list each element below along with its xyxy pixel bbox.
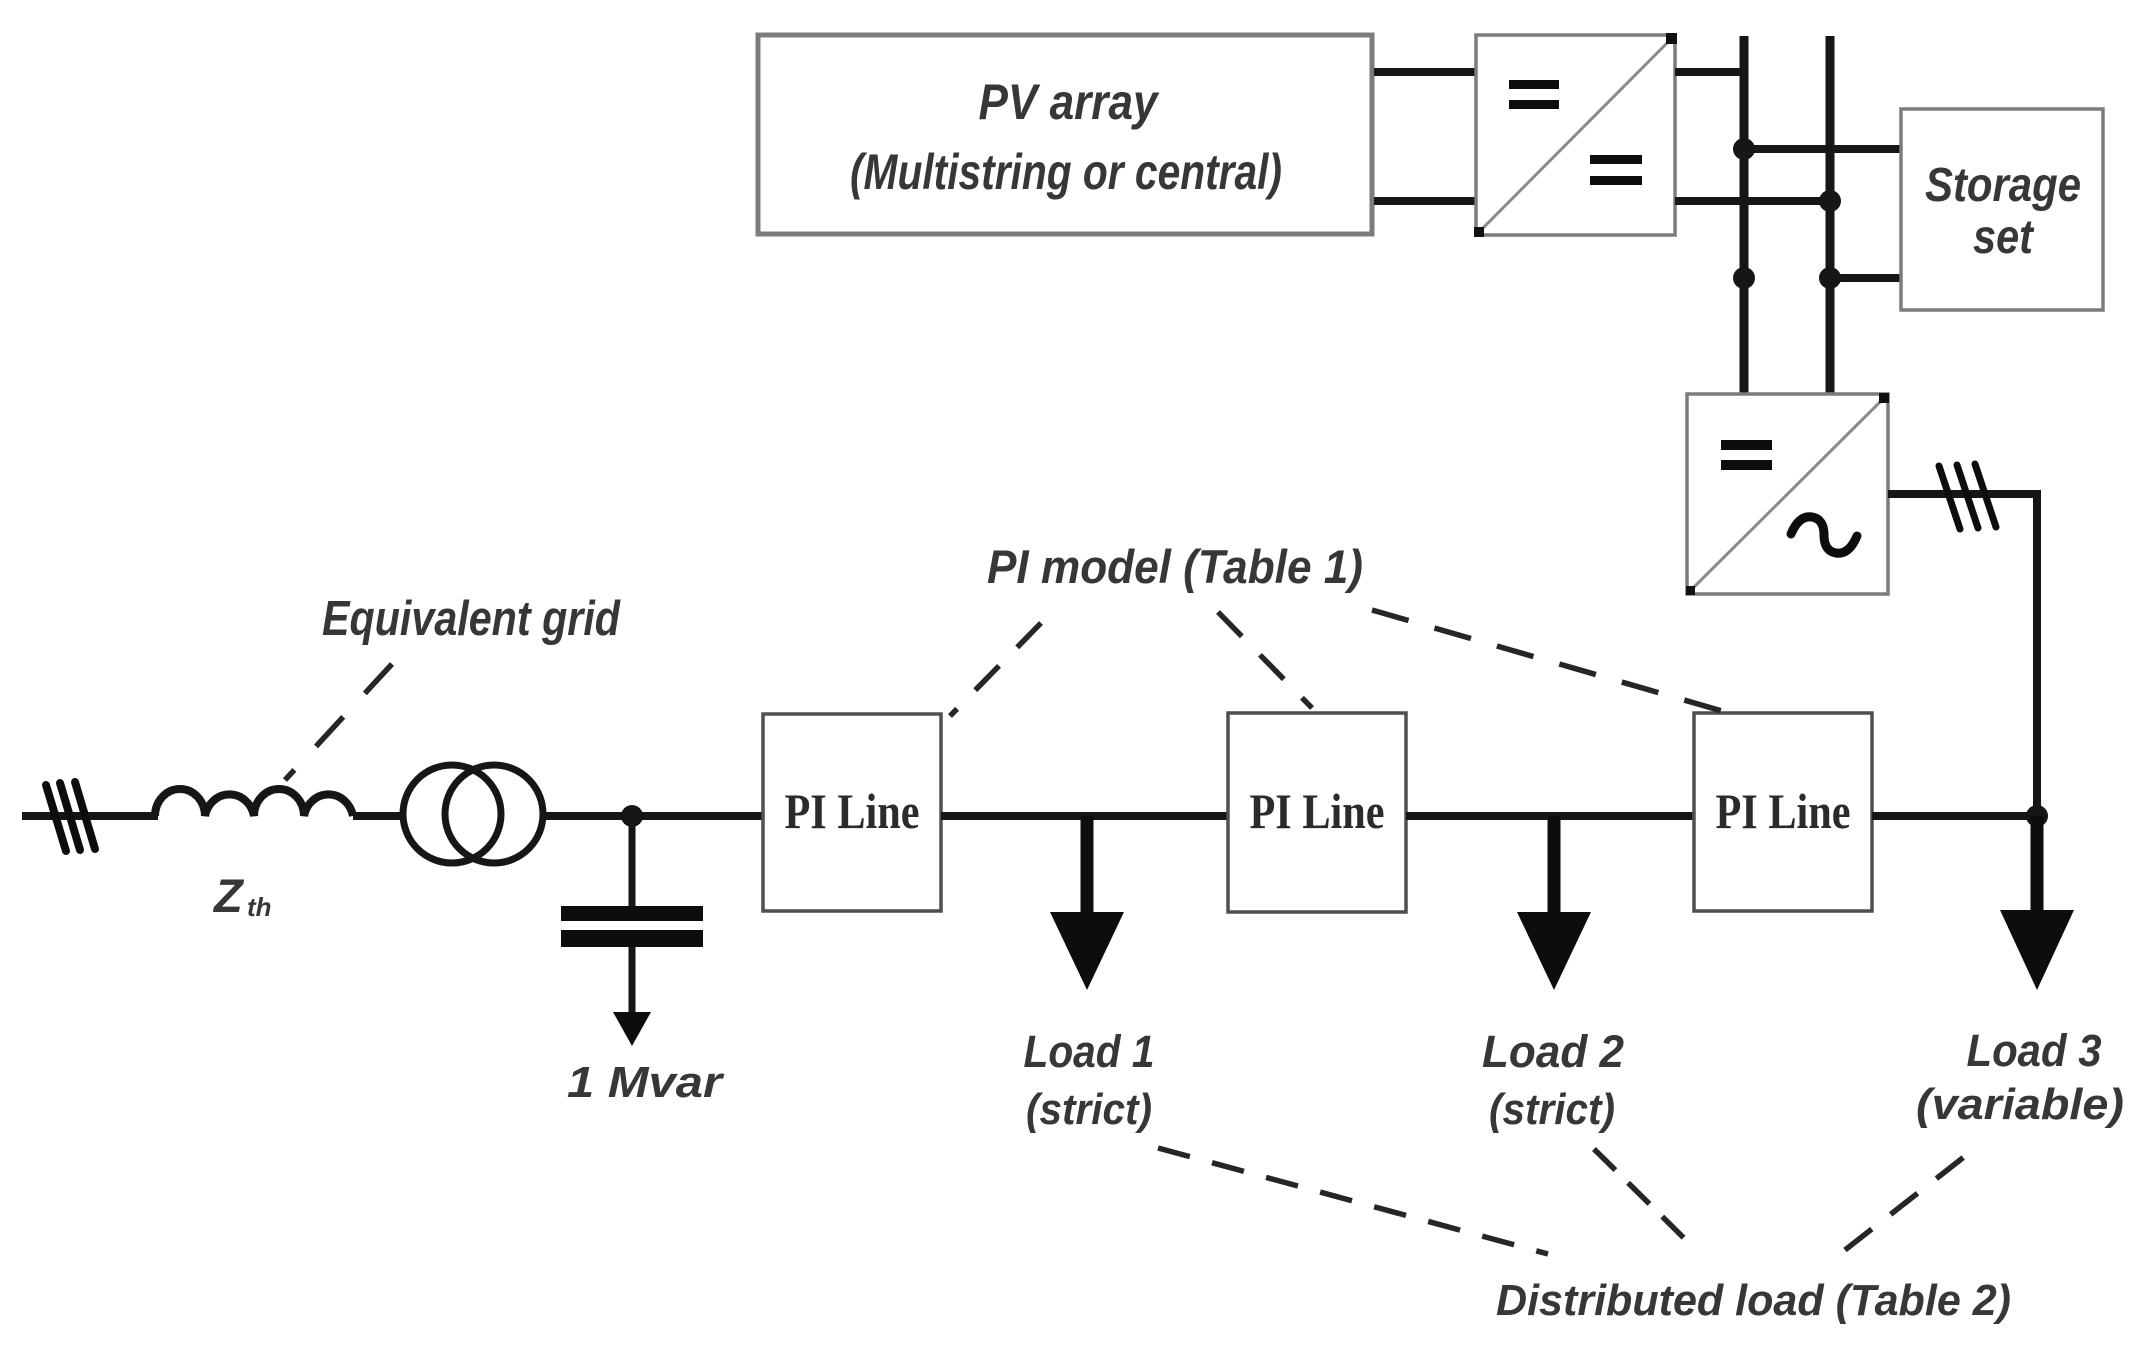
main feeder wire: box3 to load 3 node [1872,812,2041,820]
wire PV array to DC-DC converter (bottom) [1374,197,1477,205]
dashed pointer PI model to box 1 [950,623,1041,716]
dashed pointer PI model to box 3 [1372,610,1743,717]
PI Line box 1 [763,714,941,911]
three-phase ticks at grid end [46,782,95,851]
svg-text:PI model (Table 1): PI model (Table 1) [987,540,1363,593]
svg-text:PI Line: PI Line [1716,783,1851,839]
main feeder wire: box2 to box3 [1406,812,1693,820]
junction bus 2 / converter wire [1819,190,1841,212]
svg-text:(strict): (strict) [1026,1085,1152,1134]
svg-text:1 Mvar: 1 Mvar [567,1058,725,1107]
svg-text:PI Line: PI Line [1250,783,1385,839]
wire inductor to transformer [353,812,404,820]
ground arrow [613,1012,651,1046]
dashed pointer load 1 to distributed load [1158,1148,1548,1254]
dashed pointer PI model to box 2 [1218,612,1312,708]
DC-DC converter U1 [1474,33,1677,237]
load 1 branch [1024,816,1155,1134]
load 2 branch [1482,816,1624,1134]
capacitor C1 plates [561,906,703,921]
svg-text:PV array: PV array [979,74,1160,130]
transformer T1 (two overlapping circles) [403,765,543,863]
wire PV array to DC-DC converter (top) [1374,68,1477,76]
svg-text:(variable): (variable) [1916,1080,2124,1129]
wire bus 1 to storage set (upper) [1744,145,1903,153]
capacitor to ground wire [629,947,636,1016]
svg-text:(Multistring or central): (Multistring or central) [850,144,1282,200]
svg-text:(strict): (strict) [1489,1085,1615,1134]
load 3 branch [1916,816,2124,1129]
junction bus 1 / storage wire [1733,138,1755,160]
wire inverter output to feeder [1888,494,2037,816]
svg-text:PI Line: PI Line [785,783,920,839]
dashed pointer equivalent grid [285,664,392,780]
capacitor bank branch wire [629,816,636,908]
wire transformer to node A [543,812,763,820]
svg-text:th: th [247,892,272,922]
svg-text:Equivalent grid: Equivalent grid [322,592,621,646]
svg-text:Load 3: Load 3 [1967,1025,2102,1076]
storage set box [1901,109,2103,310]
PI Line box 3 [1694,713,1872,911]
svg-text:Storage: Storage [1925,159,2081,212]
main feeder wire segment (far left) [22,812,158,820]
wire DC-DC converter to bus 1 [1675,68,1744,76]
three-phase ticks on inverter output [1939,464,1996,529]
inductor Zth (equivalent grid impedance) [155,789,353,816]
svg-text:Load 2: Load 2 [1482,1026,1624,1077]
DC-AC inverter U2 [1686,393,1889,595]
DC bus 2 (vertical) [1826,36,1835,397]
label Zth [212,869,272,922]
wire bus 2 to storage set (lower) [1830,274,1903,282]
dashed pointer load 2 to distributed load [1594,1149,1694,1248]
svg-text:set: set [1973,211,2035,264]
svg-text:Distributed load (Table 2): Distributed load (Table 2) [1496,1276,2011,1325]
main feeder wire: box1 to box2 [941,812,1228,820]
junction bus 2 / storage lower wire [1819,267,1841,289]
junction load 3 node [2026,805,2048,827]
wire DC-DC converter to bus 2 [1675,197,1830,205]
DC bus 1 (vertical) [1740,36,1749,397]
node A junction dot [621,805,643,827]
svg-text:Load 1: Load 1 [1024,1026,1155,1077]
dashed pointer load 3 to distributed load [1845,1146,1978,1250]
PI Line box 2 [1228,713,1406,912]
PV array box [758,35,1372,234]
junction dot on bus 1 [1733,267,1755,289]
svg-text:Z: Z [212,869,245,922]
